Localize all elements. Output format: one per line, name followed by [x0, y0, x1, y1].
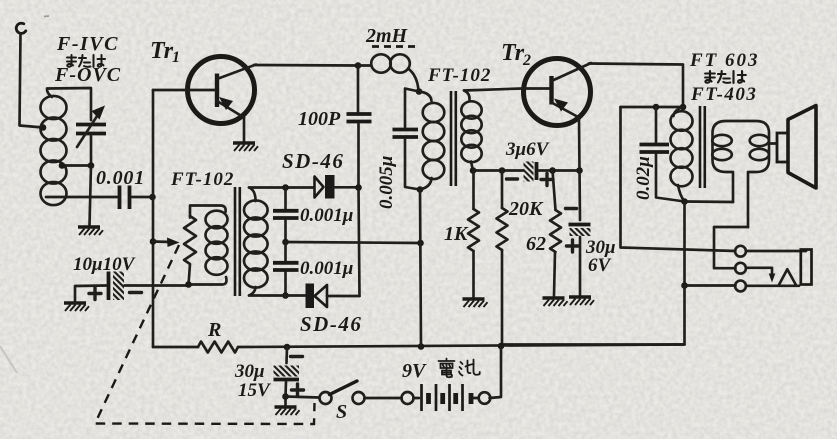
svg-text:62: 62 [526, 233, 546, 255]
svg-text:FT-102: FT-102 [427, 65, 491, 86]
wire center tap to AVC line [286, 242, 422, 243]
svg-text:30μ: 30μ [234, 361, 265, 382]
0.005u branch wire [405, 89, 419, 128]
primary winding coil [206, 211, 228, 275]
jack spring contact [779, 269, 796, 285]
wire switch to battery [365, 397, 402, 400]
svg-text:20K: 20K [508, 198, 544, 220]
secondary winding [464, 91, 470, 101]
svg-text:15V: 15V [238, 380, 271, 401]
ground antenna circuit [78, 227, 103, 235]
node 30u15V top [284, 344, 291, 351]
transistor Tr1 [153, 57, 256, 124]
svg-text:1: 1 [172, 49, 180, 66]
svg-text:100P: 100P [298, 108, 341, 130]
capacitor C4 10u10V [64, 272, 188, 312]
svg-text:S: S [336, 401, 347, 423]
node collector / 100P / 2mH [355, 62, 362, 69]
wire AVC vertical [420, 189, 421, 347]
tapped winding zigzag [184, 216, 196, 285]
core lines [700, 106, 705, 188]
left vertical to jack [621, 107, 736, 251]
wire Tr1 base vertical [152, 90, 155, 347]
label plus 30u15V [292, 384, 304, 396]
svg-text:F-IVC: F-IVC [56, 33, 119, 55]
earphone jack contacts [735, 246, 806, 292]
node secondary bottom [282, 292, 289, 299]
label denchi battery kanji [439, 359, 480, 378]
transformer FT-102 second IF [393, 88, 482, 193]
wire secondary top row [249, 186, 314, 189]
wire primary bottom down to jack low [685, 202, 736, 286]
svg-text:SD-46: SD-46 [282, 149, 344, 173]
variable capacitor VC tuning [76, 106, 106, 148]
output transformer FT-603 [621, 104, 770, 251]
node primary bottom [681, 198, 688, 205]
node coil tap [59, 162, 66, 169]
arrow tap from Tr1 base [150, 238, 180, 248]
svg-text:2mH: 2mH [365, 25, 409, 47]
node battery return [498, 343, 505, 350]
node emitter 30u junction [576, 167, 583, 174]
svg-text:R: R [207, 319, 221, 341]
node secondary center tap [282, 239, 289, 246]
node antenna tap on coil [40, 124, 47, 131]
label minus 30u15V [291, 355, 303, 358]
wire Tr1 collector to 2mH node [254, 64, 358, 67]
primary winding [674, 107, 684, 116]
node AVC line joins vertical [417, 240, 424, 247]
primary winding [419, 92, 432, 102]
label mataha 2 [705, 71, 746, 83]
core lines [235, 187, 240, 296]
label plus 30u6V [567, 240, 579, 252]
wire tap down to ground [90, 166, 92, 226]
wire secondary left lead to primary bottom node [685, 200, 734, 203]
wire to switch [286, 397, 320, 398]
ground 30u6V [569, 297, 594, 305]
jack arrow [769, 274, 776, 283]
switch S [320, 381, 365, 404]
svg-text:0.005μ: 0.005μ [376, 156, 397, 209]
wire varcap bottom to tap [62, 136, 91, 166]
capacitor C6 30u6V [569, 171, 591, 296]
svg-text:0.02μ: 0.02μ [633, 156, 654, 200]
battery terminal circle right [479, 392, 491, 404]
node varcap tap [88, 162, 95, 169]
battery 9V cells [414, 384, 479, 411]
ground 1K [463, 299, 488, 307]
antenna coil L1 [41, 96, 67, 205]
capacitor C7 30u15V [274, 347, 300, 405]
resistor 62 [550, 171, 561, 297]
node secondary top / C2 [282, 184, 289, 191]
node secondary bottom 1K top [470, 167, 477, 174]
svg-text:0.001μ: 0.001μ [300, 205, 353, 226]
svg-text:9V: 9V [402, 360, 427, 382]
svg-text:0.001μ: 0.001μ [300, 258, 353, 279]
secondary winding coil [244, 200, 268, 287]
node bottom [417, 186, 424, 193]
secondary winding [713, 121, 770, 227]
wire D1 node down to D2 [359, 188, 360, 297]
wire coil bottom line to C1 [46, 196, 117, 199]
capacitor C3 0.001u lower [273, 242, 299, 296]
wire Tr2 emitter down [578, 118, 581, 171]
svg-text:2: 2 [522, 52, 531, 69]
node 62 top [549, 167, 556, 174]
node diode D1 right [355, 184, 362, 191]
resistor R bottom [153, 342, 685, 353]
svg-text:FT-403: FT-403 [690, 84, 757, 105]
svg-text:FT-102: FT-102 [170, 169, 234, 190]
node AVC vertical bottom [418, 343, 425, 350]
wire Tr1 emitter to ground [243, 118, 246, 142]
diode SD-46 top D1 [315, 175, 359, 199]
transformer FT-102 first IF [184, 187, 268, 296]
wire emitter bus [473, 169, 523, 172]
wire Tr2 collector to output transformer [589, 64, 683, 108]
wire secondary bottom row [249, 294, 306, 297]
top feed line [621, 106, 684, 109]
svg-text:3μ6V: 3μ6V [505, 139, 550, 160]
label minus 3u [507, 177, 518, 180]
ground 30u15V [275, 407, 300, 415]
svg-text:F-OVC: F-OVC [54, 64, 121, 86]
battery terminal circle left [402, 392, 414, 404]
speaker SP [769, 106, 816, 189]
svg-text:10μ10V: 10μ10V [73, 254, 136, 275]
label plus 3u [541, 174, 553, 186]
antenna terminal [16, 23, 26, 33]
node top [416, 88, 423, 95]
node jack low branch [681, 282, 688, 289]
wire battery to minus bus [490, 346, 502, 398]
node C1 to base line [149, 194, 156, 201]
label minus 30u6V [566, 207, 577, 210]
capacitor C1 0.001 [120, 186, 153, 210]
ground 62 [543, 298, 568, 306]
0.02u capacitor [655, 107, 658, 142]
wire secondary right lead to jack mid [714, 227, 748, 268]
svg-text:SD-46: SD-46 [300, 312, 362, 336]
resistor 1K [468, 171, 479, 298]
wire antenna lead [20, 34, 44, 128]
svg-text:6V: 6V [588, 255, 612, 276]
node primary bottom [185, 281, 192, 288]
svg-text:Tr: Tr [501, 40, 525, 66]
dashed shield boundary [95, 245, 315, 424]
wire coil top to tuning cap [47, 88, 91, 120]
ground Tr1 emitter [233, 143, 258, 151]
node switch branch [282, 393, 289, 400]
core dashed 2mH [372, 45, 415, 48]
svg-text:0.001: 0.001 [96, 167, 145, 189]
capacitor C2 0.001u upper [273, 188, 299, 243]
resistor 20K [497, 171, 508, 348]
inductor 2mH [358, 54, 419, 90]
label mataha 1 [67, 55, 105, 67]
svg-text:Tr: Tr [150, 38, 174, 64]
label minus 10u [130, 291, 142, 294]
capacitor C5 3u6V [524, 162, 580, 182]
core lines [451, 91, 456, 186]
wire secondary top to Tr2 base [464, 89, 522, 91]
transistor Tr2 [522, 59, 591, 126]
diode SD-46 bottom D2 [306, 284, 360, 309]
label plus 10u [89, 288, 101, 300]
node 20K top [499, 167, 506, 174]
wire down to minus bus [501, 286, 685, 345]
svg-text:FT 603: FT 603 [689, 50, 760, 71]
svg-text:1K: 1K [444, 223, 469, 245]
jack plug sleeve [801, 250, 812, 285]
capacitor 100P branch [347, 66, 372, 188]
